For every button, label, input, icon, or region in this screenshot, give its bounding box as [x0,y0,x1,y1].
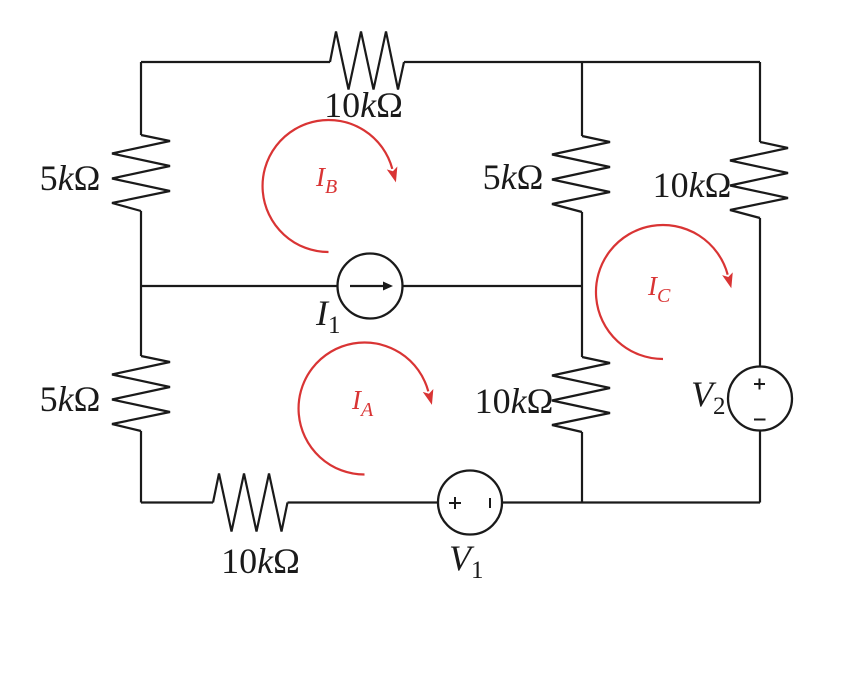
wire middle horizontal left [141,285,338,287]
wire middle branch center [581,212,583,357]
label I1 [315,293,341,339]
svg-text:10kΩ: 10kΩ [475,381,554,421]
mesh current arrow IA [299,343,429,475]
mesh current arrow IC [596,225,728,359]
wire top-left segment [141,61,330,63]
svg-text:5kΩ: 5kΩ [483,157,544,197]
label R4 value 10kΩ [221,541,300,581]
mesh current arrow IB [263,120,393,252]
resistor R5 10kΩ (right) [730,142,788,218]
wire left bottom [140,431,142,503]
voltage source V1 [438,471,502,535]
label R6 value 5kΩ [483,157,544,197]
resistor R4 10kΩ (bottom) [213,474,288,532]
voltage source V2 [728,367,792,431]
label R1 value 10kΩ [324,85,403,125]
label V1 [449,538,484,584]
label IB [315,162,337,198]
label R5 value 10kΩ [653,165,732,205]
resistor R2 5kΩ (upper left) [112,135,170,211]
svg-text:10kΩ: 10kΩ [324,85,403,125]
svg-text:10kΩ: 10kΩ [221,541,300,581]
svg-text:5kΩ: 5kΩ [40,379,101,419]
wire bottom-left segment [141,501,213,503]
wire right bottom [759,431,761,503]
wire middle branch top [581,62,583,136]
wire bottom-right segment [502,501,760,503]
label IA [351,385,374,421]
svg-text:5kΩ: 5kΩ [40,158,101,198]
wire left top [140,62,142,135]
resistor R7 10kΩ (middle branch lower) [552,357,610,432]
wire left middle [140,211,142,356]
svg-text:10kΩ: 10kΩ [653,165,732,205]
resistor R3 5kΩ (lower left) [112,356,170,431]
wire middle branch bottom [581,432,583,503]
label R7 value 10kΩ [475,381,554,421]
wire bottom middle segment [288,501,439,503]
wire middle horizontal right [403,285,583,287]
label R3 value 5kΩ [40,379,101,419]
label V2 [691,374,726,420]
current source I1 [338,254,403,319]
label R2 value 5kΩ [40,158,101,198]
wire right middle [759,218,761,367]
wire right top [759,62,761,142]
wire top-right segment [404,61,760,63]
resistor R1 10kΩ (top) [330,32,404,90]
label IC [647,271,671,307]
resistor R6 5kΩ (middle branch) [552,136,610,212]
